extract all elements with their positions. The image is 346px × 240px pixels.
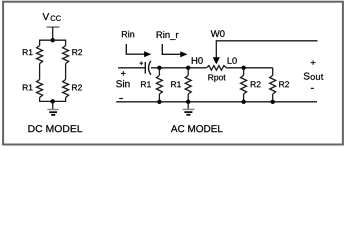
Sout label <box>304 73 323 80</box>
label R1 (DC top) <box>23 49 33 55</box>
wire mid left branch <box>39 64 41 80</box>
Rin_r label <box>157 31 179 40</box>
label R1 (AC #1) <box>141 81 151 87</box>
label R2 (AC #2) <box>279 81 289 87</box>
DC MODEL caption <box>28 125 82 132</box>
wire DC bottom rail <box>40 98 66 102</box>
resistor R2 top <box>63 46 69 64</box>
resistor R1 top <box>37 46 43 64</box>
resistor R1 (AC #2) <box>185 68 191 102</box>
border frame <box>3 2 343 145</box>
ground (AC) <box>183 102 195 115</box>
label R1 (DC bottom) <box>23 85 33 91</box>
capacitor plus <box>140 61 144 65</box>
Vcc supply bar <box>47 26 60 28</box>
resistor R2 (AC #1) <box>241 68 247 102</box>
wire top rail Rpot to R2s <box>226 67 273 69</box>
wire top rail left lead <box>118 67 145 69</box>
resistor R1 (AC #1) <box>156 68 162 102</box>
label R2 (AC #1) <box>251 81 261 87</box>
wiper arrowhead <box>213 57 220 64</box>
junction dot R1#1 bottom <box>157 100 161 104</box>
W0 wiper wire <box>216 41 317 58</box>
Vcc label <box>43 13 61 21</box>
wire AC bottom rail <box>116 101 317 103</box>
node cap output dot (R1 #1 top) <box>157 66 161 70</box>
node H0 dot (R1 #2 top) <box>186 66 190 70</box>
junction dot R1#2 bottom <box>186 100 190 104</box>
resistor R2 (AC #2) <box>270 68 276 102</box>
Rpot label <box>208 74 225 82</box>
AC MODEL caption <box>171 125 223 132</box>
label R1 (AC #2) <box>171 81 181 87</box>
plus sign (Sout +) <box>311 60 316 64</box>
wire DC top rail <box>40 40 66 45</box>
wire mid right branch <box>65 64 67 80</box>
W0 label <box>211 30 225 37</box>
plus sign (Sin +) <box>121 71 126 76</box>
node bottom junction dot <box>51 99 55 103</box>
wire top rail cap to Rpot <box>151 67 207 69</box>
junction dot R2#2 bottom <box>271 100 275 104</box>
label R2 (DC top) <box>72 49 82 55</box>
minus sign (Sin -) <box>119 98 123 100</box>
resistor R1 bottom <box>37 80 43 98</box>
capacitor C (input) <box>145 61 151 75</box>
Rin label <box>122 31 134 38</box>
node L0 dot (R2 #1 top) <box>242 66 246 70</box>
junction dot R2#1 bottom <box>242 100 246 104</box>
resistor Rpot (horizontal) <box>206 66 226 71</box>
Sin label <box>116 80 129 87</box>
wire Vcc to node <box>52 27 54 40</box>
Rin arrow <box>126 44 151 57</box>
H0 label <box>192 57 203 64</box>
ground (DC) <box>47 101 58 115</box>
label R2 (DC bottom) <box>72 84 82 90</box>
Rin_r arrow <box>162 44 187 57</box>
minus sign (Sout -) <box>311 87 314 89</box>
L0 label <box>228 57 237 64</box>
node top junction dot <box>51 38 55 42</box>
resistor R2 bottom <box>63 80 69 98</box>
